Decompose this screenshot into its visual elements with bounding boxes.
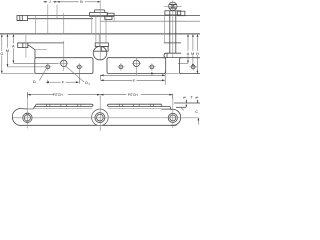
svg-text:PITCH: PITCH bbox=[53, 93, 64, 97]
svg-text:E: E bbox=[151, 71, 154, 75]
svg-text:D: D bbox=[33, 80, 36, 84]
svg-text:C: C bbox=[195, 110, 198, 114]
svg-text:G: G bbox=[0, 52, 3, 56]
svg-text:M: M bbox=[191, 52, 194, 56]
svg-text:PITCH: PITCH bbox=[128, 93, 139, 97]
svg-text:M: M bbox=[6, 49, 9, 53]
svg-text:H: H bbox=[196, 52, 199, 56]
svg-text:J: J bbox=[49, 0, 51, 4]
